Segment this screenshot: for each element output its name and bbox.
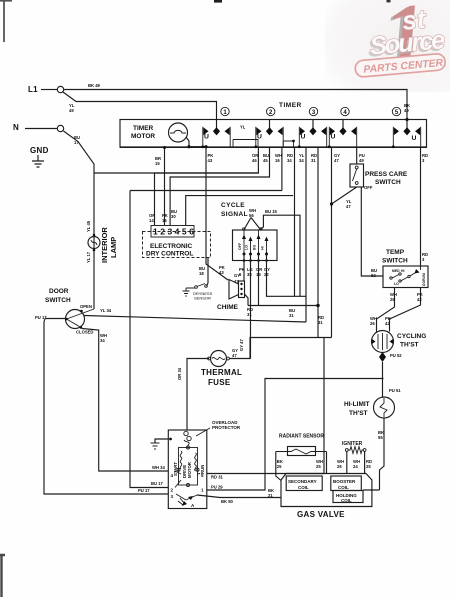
svg-text:BU: BU <box>253 244 257 250</box>
svg-text:49: 49 <box>69 108 74 113</box>
svg-text:24: 24 <box>353 464 358 469</box>
svg-text:55: 55 <box>378 435 383 440</box>
timer contact 5 <box>392 118 421 148</box>
wire BU17 branch to motor <box>130 191 282 488</box>
svg-text:BOOSTER: BOOSTER <box>333 479 356 484</box>
wire PU29 motor t1 <box>207 379 384 491</box>
svg-text:BU 17: BU 17 <box>151 481 164 486</box>
wire N lamp branch to chime bus <box>94 172 258 174</box>
timer contact 3 <box>298 120 327 149</box>
chime <box>239 281 245 298</box>
svg-text:PRESS CARE: PRESS CARE <box>365 171 408 178</box>
temp switch output WH26 <box>377 288 395 332</box>
svg-text:FUSE: FUSE <box>208 378 231 387</box>
svg-text:TIMER: TIMER <box>133 125 154 132</box>
temp switch output PK42 <box>390 288 421 332</box>
thermal fuse <box>211 351 227 367</box>
switch N (line fuse) <box>57 125 63 131</box>
motor ground <box>169 438 172 441</box>
cycle signal contacts <box>244 230 267 254</box>
wire YL34 door to riser <box>84 316 306 323</box>
svg-text:CLOSED: CLOSED <box>76 330 93 335</box>
svg-text:HI-LIMIT: HI-LIMIT <box>344 401 370 408</box>
svg-text:ELECTRONIC: ELECTRONIC <box>150 243 193 250</box>
timer contact 1 <box>201 120 230 149</box>
svg-text:43: 43 <box>219 270 224 275</box>
svg-text:45: 45 <box>263 158 268 163</box>
svg-text:OR 34: OR 34 <box>177 367 182 380</box>
svg-text:PU 17: PU 17 <box>35 315 47 320</box>
svg-text:PU 17: PU 17 <box>138 488 150 493</box>
wire thermal fuse right GY47 <box>230 338 332 474</box>
frame tick top-center <box>214 0 222 3</box>
svg-text:TIMER: TIMER <box>279 102 302 109</box>
wire BR15 drop to terminal 2 <box>164 148 166 226</box>
svg-text:DOOR: DOOR <box>49 288 69 295</box>
svg-text:YL 34: YL 34 <box>100 308 112 313</box>
svg-text:BK 49: BK 49 <box>88 83 101 88</box>
svg-text:SECONDARY: SECONDARY <box>288 479 317 484</box>
svg-text:47: 47 <box>334 158 339 163</box>
wires below cycle signal <box>243 254 245 281</box>
dryness sensor <box>195 286 198 289</box>
wire WH16 drop to dry control t4 <box>281 148 283 191</box>
svg-text:15: 15 <box>256 272 261 277</box>
wire holding to BK55 <box>363 489 380 491</box>
svg-text:PU 29: PU 29 <box>211 485 223 490</box>
svg-text:PU 52: PU 52 <box>390 353 402 358</box>
wire BU45 drop to dry control t3 <box>170 148 269 226</box>
wire thermal fuse left OR34 to motor <box>187 359 209 431</box>
svg-text:25: 25 <box>316 464 321 469</box>
cycle signal switch box <box>233 230 278 261</box>
svg-text:LO: LO <box>394 282 399 286</box>
motor box <box>168 430 207 509</box>
svg-text:CYCLING: CYCLING <box>397 333 426 340</box>
svg-text:MOTOR: MOTOR <box>131 133 155 140</box>
svg-text:U: U <box>204 134 209 141</box>
svg-text:YL: YL <box>240 125 246 130</box>
svg-text:U: U <box>301 134 306 141</box>
frame corner top-left <box>0 0 12 42</box>
svg-text:SENSOR: SENSOR <box>194 296 211 301</box>
timer contact 2 <box>254 120 283 149</box>
wire BU18 to dryness sensor <box>207 258 209 287</box>
motor centrifugal switch <box>176 494 197 500</box>
chime output wires <box>245 294 249 306</box>
svg-text:HI: HI <box>401 269 404 273</box>
svg-text:CYCLE: CYCLE <box>221 202 245 209</box>
svg-text:47: 47 <box>346 204 351 209</box>
svg-text:43: 43 <box>208 158 213 163</box>
svg-text:18: 18 <box>199 271 204 276</box>
svg-text:21: 21 <box>268 493 273 498</box>
svg-text:U: U <box>331 134 336 141</box>
wire chime bottom bus to RD31 <box>248 305 318 307</box>
svg-text:WH 34: WH 34 <box>152 465 165 470</box>
svg-text:BU 15: BU 15 <box>265 209 278 214</box>
svg-text:COIL: COIL <box>338 485 349 490</box>
wire L1 lead <box>41 89 57 91</box>
svg-text:COIL: COIL <box>298 485 309 490</box>
wire N lead <box>25 128 57 130</box>
svg-text:16: 16 <box>162 218 167 223</box>
svg-text:30: 30 <box>171 214 176 219</box>
svg-text:25: 25 <box>366 464 371 469</box>
radiant sensor leads <box>276 452 281 481</box>
wire YL49 rail <box>63 92 217 120</box>
svg-text:RADIANT SENSOR: RADIANT SENSOR <box>279 434 324 440</box>
svg-text:46: 46 <box>252 158 257 163</box>
svg-text:26: 26 <box>337 464 342 469</box>
cycling thermostat <box>372 331 394 353</box>
svg-text:OPEN: OPEN <box>80 304 92 309</box>
svg-text:GY 47: GY 47 <box>239 339 244 351</box>
svg-text:TEMP: TEMP <box>386 249 405 256</box>
svg-text:TH'ST: TH'ST <box>349 410 368 417</box>
wire BK49 top rail <box>64 90 407 120</box>
svg-text:RD 31: RD 31 <box>211 475 224 480</box>
wire press box to temp switch BU52 <box>361 187 383 276</box>
svg-text:HI: HI <box>261 246 265 250</box>
svg-text:YL 45: YL 45 <box>86 220 91 232</box>
svg-text:GY: GY <box>234 273 240 278</box>
svg-text:34: 34 <box>100 338 105 343</box>
svg-text:PROTECTOR: PROTECTOR <box>212 425 241 430</box>
wire RD31 drop <box>317 148 319 338</box>
svg-text:SWITCH: SWITCH <box>382 258 408 265</box>
svg-text:SWITCH: SWITCH <box>375 179 401 186</box>
svg-text:GAS VALVE: GAS VALVE <box>297 510 345 519</box>
svg-text:OFF: OFF <box>238 242 242 250</box>
interior lamp <box>88 237 100 249</box>
svg-text:31: 31 <box>289 313 294 318</box>
svg-text:OFF: OFF <box>364 185 373 190</box>
wire PU17 door switch to motor <box>44 319 168 495</box>
svg-text:BK 50: BK 50 <box>221 499 234 504</box>
svg-text:YL 17: YL 17 <box>86 251 91 263</box>
motor terminals <box>171 473 205 499</box>
svg-text:31: 31 <box>311 158 316 163</box>
svg-text:42: 42 <box>417 297 422 302</box>
wire OR46 drop to dry control t1 <box>155 148 259 226</box>
svg-text:L1: L1 <box>28 85 38 94</box>
svg-text:DRY CONTROL: DRY CONTROL <box>146 251 193 258</box>
wire RD3 drop to temp switch <box>420 148 422 267</box>
svg-text:15: 15 <box>155 161 160 166</box>
wire BK55 hi-limit to booster <box>380 418 385 490</box>
wire PK43 drop to chime <box>206 148 228 281</box>
electronic dry control dashed box <box>143 232 211 258</box>
svg-text:PU 51: PU 51 <box>389 388 401 393</box>
wire RD34 drop <box>294 148 296 297</box>
svg-text:COIL: COIL <box>341 498 352 503</box>
svg-text:17: 17 <box>74 140 79 145</box>
svg-text:SWITCH: SWITCH <box>45 297 71 304</box>
logo 1st Source Parts Center watermark <box>387 0 391 2</box>
svg-text:MED: MED <box>392 269 400 273</box>
buzzer cycle signal <box>244 218 261 231</box>
holding coil <box>333 491 363 503</box>
svg-text:CHIME: CHIME <box>217 304 239 311</box>
svg-text:SIGNAL: SIGNAL <box>221 211 248 218</box>
svg-text:INTERIOR: INTERIOR <box>100 227 109 263</box>
svg-text:34: 34 <box>299 158 304 163</box>
svg-text:42: 42 <box>385 321 390 326</box>
wire PU49 drop to press care switch <box>356 148 358 165</box>
wire GY47 drop to press switch junction <box>331 148 333 338</box>
gas valve outline <box>281 474 372 507</box>
timer box <box>120 120 427 148</box>
press care switch <box>350 164 364 187</box>
svg-text:47: 47 <box>232 353 237 358</box>
svg-text:56: 56 <box>249 213 254 218</box>
svg-text:LAMP: LAMP <box>109 237 118 258</box>
svg-text:49: 49 <box>359 158 364 163</box>
wire BK50 motor to gas valve <box>197 495 281 498</box>
svg-text:52: 52 <box>371 273 376 278</box>
cycling pointer <box>382 353 384 360</box>
hi-limit thermostat <box>374 397 395 418</box>
svg-text:22: 22 <box>264 272 269 277</box>
svg-text:LO: LO <box>245 245 249 250</box>
frame corner bottom-left <box>0 554 5 597</box>
svg-text:TH'ST: TH'ST <box>400 342 419 349</box>
wire BU15 riser <box>261 215 300 296</box>
svg-text:16: 16 <box>275 158 280 163</box>
svg-text:31: 31 <box>247 312 252 317</box>
wire YL47 press switch to GY47 junction <box>332 187 357 204</box>
svg-text:26: 26 <box>370 321 375 326</box>
svg-text:26: 26 <box>390 297 395 302</box>
wire WH34 door switch to motor <box>82 329 168 472</box>
timer cam numbers <box>221 107 401 116</box>
secondary coil <box>286 476 322 491</box>
svg-text:38: 38 <box>247 272 252 277</box>
svg-text:IGNITER: IGNITER <box>342 441 363 447</box>
switch L1 (line fuse) <box>57 86 63 92</box>
svg-text:14: 14 <box>149 218 154 223</box>
svg-text:49: 49 <box>404 108 409 113</box>
svg-text:34: 34 <box>287 158 292 163</box>
wire PU51 <box>382 362 384 397</box>
svg-text:U: U <box>412 135 417 142</box>
svg-text:N: N <box>13 123 19 132</box>
svg-text:DORUM: DORUM <box>422 273 426 286</box>
svg-text:31: 31 <box>318 320 323 325</box>
dry control terminal strip <box>151 226 194 238</box>
booster coil <box>331 476 362 491</box>
svg-text:25: 25 <box>277 464 282 469</box>
motor internals <box>173 461 205 478</box>
wire RD31 motor t5 <box>207 473 324 475</box>
svg-text:GND: GND <box>30 146 49 155</box>
svg-text:THERMAL: THERMAL <box>201 368 242 377</box>
timer internal bus <box>233 140 294 148</box>
svg-text:MOTOR: MOTOR <box>187 461 192 478</box>
wire BU17 from N <box>64 131 95 309</box>
timer contact 4 <box>328 120 357 149</box>
wire YL34 drop to door switch <box>305 148 307 323</box>
